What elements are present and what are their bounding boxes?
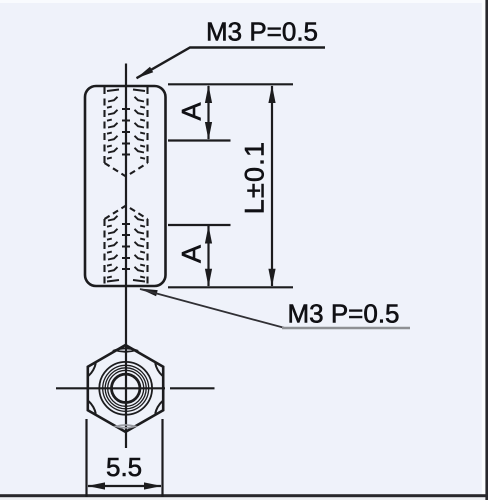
bottom white gutter: [0, 497, 488, 500]
dimension A1 line with arrows: [207, 86, 209, 139]
thread circle 3: [108, 370, 144, 406]
tapped hole top: left wall (hidden line): [103, 87, 105, 163]
thread circle 2: [105, 368, 146, 409]
svg-text:M3 P=0.5: M3 P=0.5: [206, 17, 318, 47]
top white strip: [0, 0, 488, 3]
right table border: [485, 0, 488, 500]
tapped hole top: crest ticks on centerline: [122, 109, 130, 155]
tapped hole bottom: left wall (hidden line): [103, 219, 105, 285]
horizontal centerline of bottom view: [56, 387, 165, 389]
centerline (front view + bottom view vertical axis): [125, 64, 127, 449]
tapped hole top: drill point V: [105, 163, 148, 177]
chamfer arc lower-right corner: [155, 401, 162, 414]
hexagon body (bottom view): [88, 345, 163, 432]
svg-text:M3 P=0.5: M3 P=0.5: [288, 299, 400, 329]
extension line 5.5 left: [85, 419, 87, 497]
leader bottom: line: [140, 289, 284, 328]
tapped hole bottom: right wall (hidden line): [146, 219, 148, 285]
svg-text:A: A: [177, 245, 207, 263]
chamfer lens at top vertex: [115, 348, 136, 352]
tapped hole top: thread marks right: [133, 90, 145, 159]
bore circle: [112, 374, 140, 402]
chamfer circle (outer): [99, 362, 152, 415]
tapped hole bottom: drill point V: [105, 206, 148, 220]
svg-text:A: A: [177, 102, 207, 120]
tapped hole bottom: thread marks right: [133, 216, 145, 282]
leader top: line: [137, 48, 326, 79]
bottom table border: [0, 494, 488, 497]
dimension A2 line with arrows: [207, 226, 209, 286]
tapped hole top: right wall (hidden line): [146, 87, 148, 163]
leader top: arrow: [136, 67, 153, 79]
extension tick (thread depth A, lower): [168, 224, 231, 226]
extension tick (thread depth A, upper): [168, 139, 231, 141]
svg-text:5.5: 5.5: [106, 452, 142, 482]
dimension 5.5 line with arrows: [88, 485, 161, 487]
tapped hole bottom: crest ticks on centerline: [122, 224, 130, 269]
horizontal centerline end dash: [170, 387, 215, 389]
chamfer arc upper-right corner: [155, 363, 162, 376]
thread circle 1: [103, 365, 149, 411]
chamfer arc lower-left corner: [89, 401, 96, 414]
chamfer arc upper-left corner: [89, 363, 96, 376]
tapped hole top: thread marks left: [107, 90, 119, 159]
cylinder body B1 (front view): [85, 86, 166, 286]
extension line bottom (at bottom face): [168, 286, 293, 288]
extension line 5.5 right: [161, 419, 163, 497]
svg-text:L±0.1: L±0.1: [240, 141, 270, 214]
dimension L line with arrows: [271, 86, 273, 286]
chamfer lens at bottom vertex: [116, 425, 135, 428]
right white gutter: [482, 0, 486, 500]
tapped hole bottom: thread marks left: [107, 216, 119, 282]
extension line top (at top face): [168, 83, 293, 85]
leader bottom: arrow: [140, 289, 158, 297]
